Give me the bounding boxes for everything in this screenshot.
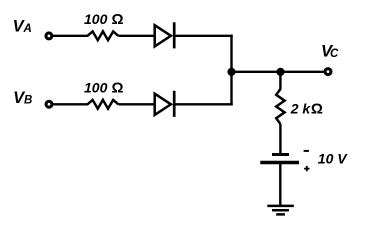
wire bus to output node [232,71,281,73]
value label 100 Ω (R1) [84,11,124,28]
battery polarity minus [304,150,309,152]
svg-text:100: 100 [84,79,108,95]
label VC [321,43,339,61]
wire VA terminal to R1 [53,35,88,37]
label VA [13,17,32,35]
input terminal VA [46,33,52,39]
value label 2 kΩ (R3) [290,100,323,117]
diode D1 [155,22,175,48]
resistor R2 [88,100,119,109]
wire R2 to D2 [118,103,154,105]
wire vertical bus joining diode outputs [230,35,232,106]
svg-text:100: 100 [84,11,108,27]
svg-text:C: C [330,48,339,60]
battery V1 negative plate (short) [272,153,289,156]
svg-text:2 k: 2 k [290,100,312,116]
svg-text:10 V: 10 V [318,150,348,166]
battery V1 positive plate (long) [260,161,299,164]
input terminal VB [46,101,52,107]
diode D2 [155,91,175,117]
svg-text:Ω: Ω [112,11,124,28]
wire R3 to battery [279,124,281,154]
battery polarity plus [304,166,309,171]
svg-text:Ω: Ω [311,100,323,117]
wire battery to ground [279,163,281,206]
junction node at output [276,68,284,76]
wire D1 to node corner [176,35,233,37]
junction node at diode bus [227,68,235,76]
wire node to VC terminal [281,71,324,73]
svg-text:Ω: Ω [112,79,124,96]
svg-text:A: A [23,23,32,35]
label VB [13,89,32,107]
resistor R1 [88,31,119,40]
value label 100 Ω (R2) [84,79,124,96]
resistor R3 (2 kΩ) [276,89,284,124]
ground [267,206,294,215]
wire R1 to D1 [118,35,154,37]
wire D2 to node corner [176,103,233,105]
wire node down to R3 [279,72,281,90]
wire VB terminal to R2 [53,103,88,105]
output terminal VC [325,69,331,75]
svg-text:B: B [24,95,32,107]
